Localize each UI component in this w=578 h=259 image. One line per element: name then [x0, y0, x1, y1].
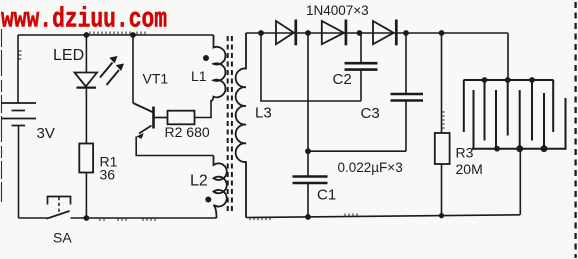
wire: VT1 emitter down and right to L2 [136, 137, 213, 156]
resistor R2 [168, 111, 195, 125]
capacitor C1 [293, 177, 328, 184]
wire: secondary top rail [246, 32, 508, 34]
inductor L3 [236, 33, 246, 218]
LED light arrow 1 [100, 56, 118, 78]
LED diode symbol [75, 73, 98, 88]
battery GB 3V [1, 103, 36, 126]
svg-text:VT1: VT1 [143, 71, 169, 87]
svg-text:LED: LED [53, 47, 84, 64]
wire: grid bottom bar down to bottom rail [519, 149, 521, 215]
L2 phasing dot [205, 197, 211, 203]
svg-text:SA: SA [53, 230, 72, 246]
svg-text:L2: L2 [190, 173, 208, 190]
wire: node A down and right to C2 bottom [261, 33, 361, 101]
wire hatch ticks on secondary bottom rail [250, 112, 445, 220]
wire: C3 bottom stub [405, 101, 407, 152]
capacitor C3 [391, 94, 424, 101]
svg-text:1N4007×3: 1N4007×3 [306, 3, 369, 18]
page border left (dashed) [1, 29, 3, 202]
wire: R1 to bottom rail [85, 173, 87, 219]
wire hatch ticks on top rail [19, 32, 146, 60]
svg-text:3V: 3V [37, 125, 55, 142]
node: C1 bottom [305, 214, 311, 220]
svg-text:R3: R3 [456, 145, 474, 161]
resistor R1 [79, 144, 93, 173]
wire: secondary bottom rail [246, 215, 520, 218]
grid top electrode bar [464, 80, 554, 141]
grid bottom bar node dots [494, 146, 500, 152]
node D [403, 30, 409, 36]
node: bottom rail / R1 junction [84, 215, 90, 221]
node: top rail / LED branch [84, 32, 90, 38]
svg-text:L1: L1 [191, 68, 207, 84]
svg-text:L3: L3 [255, 105, 272, 122]
node: C1 top junction [305, 148, 311, 154]
page border right (dashed) [574, 2, 576, 258]
capacitor C2 [345, 63, 378, 69]
node: R3 bottom [439, 213, 444, 218]
switch SA [47, 197, 71, 219]
node: top rail / VT1 collector branch [130, 32, 136, 38]
wire: R2 right to L1 bottom [195, 100, 212, 118]
wire: R3 to bottom rail [441, 164, 443, 216]
node A [258, 30, 264, 36]
L1 phasing dot [203, 55, 209, 61]
wire: left rail (battery bottom to bottom rail) [18, 126, 20, 219]
svg-text:R2 680: R2 680 [165, 124, 210, 140]
svg-text:C2: C2 [333, 71, 352, 88]
wire: C2 bottom stub [360, 70, 362, 101]
inductor L1 [211, 35, 225, 102]
svg-text:www.dziuu.com: www.dziuu.com [1, 5, 167, 36]
grid bottom electrode bar [472, 90, 567, 149]
wire: C3 top to node D [405, 33, 407, 94]
wire: link C1 top to C3 bottom [308, 150, 406, 152]
wire: C1 stubs [307, 151, 309, 217]
transistor VT1 [133, 103, 168, 139]
wire: C2 top to node C [360, 33, 362, 63]
transformer core [227, 36, 229, 214]
wire: top rail corner down to grid [507, 33, 509, 80]
svg-text:36: 36 [100, 167, 116, 183]
svg-text:C3: C3 [361, 105, 380, 122]
svg-text:C1: C1 [317, 187, 336, 204]
wire: LED cathode to R1 [85, 88, 87, 144]
node E (R3 branch) [439, 30, 445, 36]
node B [305, 30, 311, 36]
inductor L2 [214, 156, 227, 219]
diode D2 1N4007 [322, 20, 346, 46]
svg-text:20M: 20M [456, 161, 483, 177]
wire: left circuit top rail [18, 34, 214, 36]
wire: bottom rail left of switch SA [19, 217, 48, 219]
wire: node B down to C1 [307, 33, 309, 151]
diode D3 1N4007 [373, 20, 396, 46]
wire: VT1 collector branch from top rail [132, 35, 134, 103]
wire: bottom rail right of switch [71, 217, 217, 219]
grid top bar node dots [482, 77, 488, 83]
node C [357, 30, 363, 36]
LED light arrow 2 [107, 64, 125, 86]
svg-text:0.022µF×3: 0.022µF×3 [338, 160, 403, 175]
wire: left rail (battery top) [17, 35, 19, 103]
resistor R3 [435, 133, 450, 164]
wire: LED anode from top rail [85, 35, 87, 73]
wire hatch ticks on bottom rail [100, 218, 155, 221]
wire: node E down to R3 [441, 33, 443, 133]
diode D1 1N4007 [276, 20, 296, 46]
